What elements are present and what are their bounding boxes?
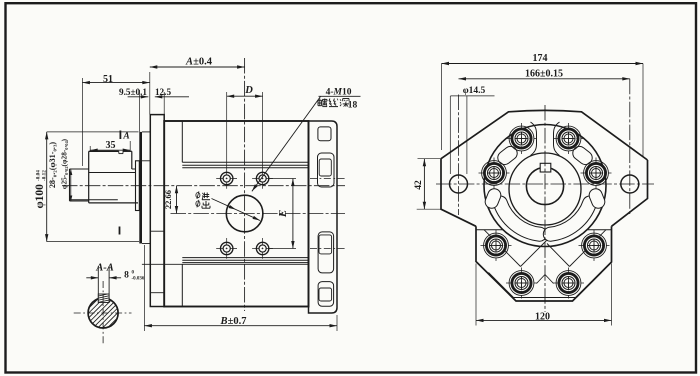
svg-text:35: 35 <box>106 140 116 151</box>
svg-text:18: 18 <box>348 101 358 111</box>
svg-text:51: 51 <box>103 74 113 85</box>
svg-text:174: 174 <box>533 53 548 64</box>
svg-text:-0.12: -0.12 <box>42 170 48 181</box>
svg-text:D: D <box>244 85 253 96</box>
svg-text:B±0.7: B±0.7 <box>220 316 247 327</box>
svg-text:-0.036: -0.036 <box>132 277 145 282</box>
svg-text:120: 120 <box>535 311 550 322</box>
svg-text:φ25-₀.₀₂(φ28-₀.₀₄): φ25-₀.₀₂(φ28-₀.₀₄) <box>60 138 69 189</box>
svg-text:φ100: φ100 <box>34 184 46 209</box>
svg-text:12.5: 12.5 <box>155 87 171 97</box>
svg-text:A±0.4: A±0.4 <box>185 56 213 67</box>
svg-text:42: 42 <box>414 180 424 190</box>
svg-text:22.66: 22.66 <box>163 190 173 209</box>
svg-text:φ14.5: φ14.5 <box>463 86 486 96</box>
svg-text:9.5±0.1: 9.5±0.1 <box>119 87 147 97</box>
svg-text:166±0.15: 166±0.15 <box>525 68 563 79</box>
svg-text:8: 8 <box>124 271 129 281</box>
svg-text:E: E <box>277 210 289 218</box>
svg-text:A: A <box>122 132 129 142</box>
svg-text:28-₀.₂(φ31-₀.₃): 28-₀.₂(φ31-₀.₃) <box>48 142 57 189</box>
